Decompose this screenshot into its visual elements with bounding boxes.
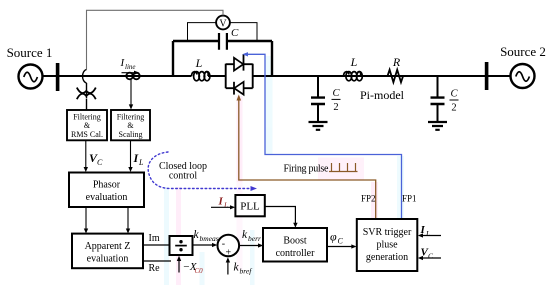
- net FP1 (blue): [242, 52, 401, 218]
- net FP2 (brown): [237, 95, 376, 219]
- svg-text:generation: generation: [366, 252, 408, 263]
- wire shunt capacitor left drop: [317, 76, 319, 97]
- wire shunt capacitor right drop: [437, 76, 439, 97]
- label Pi-model: [360, 88, 405, 102]
- capacitor C/2 right plates: [431, 98, 445, 104]
- bus bar B1: [56, 63, 60, 91]
- svg-text:Source 2: Source 2: [500, 44, 546, 59]
- svg-text:Re: Re: [149, 263, 161, 274]
- block Filtering & Scaling: [111, 110, 150, 140]
- svg-text:2: 2: [333, 102, 338, 113]
- block Boost controller: [263, 228, 327, 262]
- block Phasor evaluation: [69, 173, 144, 208]
- wire Re output: [143, 260, 171, 262]
- source S1 sine generator: [19, 65, 43, 89]
- label IL at SVR: [420, 224, 431, 238]
- label phiC: [330, 230, 344, 246]
- label IL to PLL: [218, 196, 229, 210]
- label kbmeas: [194, 229, 219, 243]
- svg-text:bmeas: bmeas: [200, 234, 219, 243]
- label C/2 right: [450, 89, 459, 114]
- svg-text:V: V: [219, 19, 227, 30]
- faint highlight stripes: [164, 56, 404, 285]
- svg-text:Boost: Boost: [283, 236, 307, 247]
- svg-text:Pi-model: Pi-model: [360, 88, 405, 102]
- svg-text:evaluation: evaluation: [86, 192, 128, 203]
- wire kbmeas to summer: [193, 243, 218, 247]
- wire Im output: [143, 244, 170, 246]
- wire to left ground: [317, 104, 319, 122]
- inductor L (pi-model): [344, 72, 363, 81]
- wire hop to transformer: [86, 83, 88, 98]
- label -Xc0: [183, 261, 204, 275]
- wire Vc measurement (gray): [87, 10, 224, 69]
- svg-text:Scaling: Scaling: [119, 130, 143, 139]
- label closed loop control: [159, 161, 207, 182]
- arrow Iline direction: [122, 71, 140, 75]
- wire IL to phasor evaluation: [128, 141, 132, 173]
- label L (pi-model): [350, 55, 358, 69]
- svg-text:&: &: [127, 121, 134, 130]
- svg-text:L: L: [223, 201, 228, 210]
- resistor R: [388, 70, 404, 83]
- label Firing pulse: [284, 164, 330, 175]
- thyristor block right riser: [252, 64, 254, 88]
- svg-text:controller: controller: [276, 248, 316, 259]
- block SVR trigger pulse generation: [357, 219, 418, 271]
- wire voltmeter right tap: [230, 23, 257, 40]
- svg-text:φ: φ: [330, 230, 337, 244]
- closed loop control annotation: [148, 152, 257, 191]
- block PLL: [235, 195, 264, 216]
- label Vc at SVR: [421, 247, 435, 261]
- wire phasor to apparent Z (left): [84, 207, 88, 234]
- svg-text:pluse: pluse: [376, 240, 398, 251]
- source S2 sine generator: [511, 64, 535, 88]
- svg-text:Im: Im: [149, 233, 160, 244]
- svg-text:C: C: [338, 237, 344, 246]
- svg-text:C: C: [450, 89, 458, 100]
- wire Vc to phasor evaluation: [84, 141, 88, 173]
- TCSC frame left riser: [172, 41, 174, 76]
- label R: [392, 55, 401, 69]
- label Iline: [120, 57, 136, 71]
- svg-text:Firing pulse: Firing pulse: [284, 164, 330, 175]
- wire thyristor bottom branch: [226, 87, 253, 89]
- capacitor C plates: [219, 33, 227, 50]
- voltmeter V: [216, 16, 230, 30]
- thyristor block left riser: [225, 64, 227, 88]
- label IL: [133, 151, 145, 167]
- wire PLL to boost controller: [265, 207, 298, 228]
- wire IL into PLL: [211, 205, 235, 209]
- label Re: [149, 263, 161, 274]
- thyristor T1: [234, 54, 244, 70]
- svg-text:PLL: PLL: [240, 201, 260, 213]
- label FP1: [402, 194, 417, 204]
- svg-text:evaluation: evaluation: [87, 254, 129, 265]
- label Im: [149, 233, 160, 244]
- block Filtering & RMS Cal.: [67, 110, 107, 140]
- svg-text:line: line: [125, 63, 136, 71]
- wire thyristor top branch: [226, 63, 253, 65]
- instrument transformer symbol: [77, 88, 96, 100]
- capacitor C value label: [231, 27, 239, 39]
- wire kberr to boost controller: [239, 243, 263, 247]
- svg-text:+: +: [226, 248, 232, 259]
- label kberr: [242, 229, 261, 243]
- thyristor T2: [234, 82, 244, 95]
- svg-text:bref: bref: [240, 267, 253, 276]
- wire voltmeter left tap: [188, 23, 217, 40]
- wire transformer to filtering box: [86, 99, 88, 111]
- bus bar B2: [485, 62, 489, 90]
- svg-text:FP1: FP1: [402, 194, 417, 204]
- svg-text:L: L: [425, 229, 430, 238]
- label Vc: [89, 151, 103, 167]
- capacitor C branch wire: [173, 40, 272, 42]
- svg-text:R: R: [392, 55, 401, 69]
- wire to right ground: [437, 104, 439, 122]
- wire IL input to SVR: [418, 233, 441, 237]
- ground left: [309, 122, 328, 130]
- ground right: [428, 122, 447, 130]
- svg-text:L: L: [138, 158, 144, 167]
- capacitor C/2 left plates: [311, 98, 325, 104]
- svg-text:&: &: [84, 121, 91, 130]
- Source 1 label: [7, 45, 53, 60]
- svg-text:I: I: [420, 224, 426, 236]
- block Apparent Z evaluation: [72, 234, 143, 269]
- wire Iline to scaling box: [129, 80, 133, 110]
- block divider: [170, 236, 193, 255]
- wire phasor to apparent Z (right): [126, 207, 130, 234]
- svg-text:RMS Cal.: RMS Cal.: [71, 130, 103, 139]
- svg-text:L: L: [195, 56, 203, 70]
- svg-text:SVR trigger: SVR trigger: [363, 227, 412, 238]
- label L (TCSC): [195, 56, 203, 70]
- inductor L (TCSC): [192, 72, 210, 81]
- label kbref: [234, 262, 253, 276]
- wire main transmission line: [42, 75, 511, 77]
- arrow -Xc0 into divider: [177, 256, 181, 273]
- svg-text:FP2: FP2: [361, 194, 376, 204]
- wire phiC to SVR: [327, 244, 357, 248]
- TCSC frame right riser: [271, 41, 273, 76]
- svg-text:C: C: [332, 88, 340, 99]
- svg-text:C: C: [97, 158, 103, 167]
- svg-text:Phasor: Phasor: [93, 180, 121, 191]
- svg-text:control: control: [169, 171, 198, 182]
- svg-text:C: C: [231, 27, 239, 39]
- svg-text:L: L: [350, 55, 358, 69]
- summing junction: [218, 235, 240, 259]
- label C/2 left: [332, 88, 341, 113]
- wire Vc input to SVR: [418, 256, 441, 260]
- svg-text:berr: berr: [248, 234, 261, 243]
- current transformer Iline: [126, 73, 139, 80]
- svg-text:C0: C0: [195, 267, 204, 275]
- svg-text:I: I: [218, 196, 224, 208]
- label FP2: [361, 194, 376, 204]
- firing pulse train: [329, 163, 358, 172]
- svg-text:Apparent Z: Apparent Z: [85, 241, 131, 252]
- wire hop over main line: [83, 70, 87, 84]
- Source 2 label: [500, 44, 546, 59]
- arrow kbref into summer: [226, 257, 230, 274]
- svg-text:2: 2: [451, 103, 456, 114]
- svg-text:Source 1: Source 1: [7, 45, 53, 60]
